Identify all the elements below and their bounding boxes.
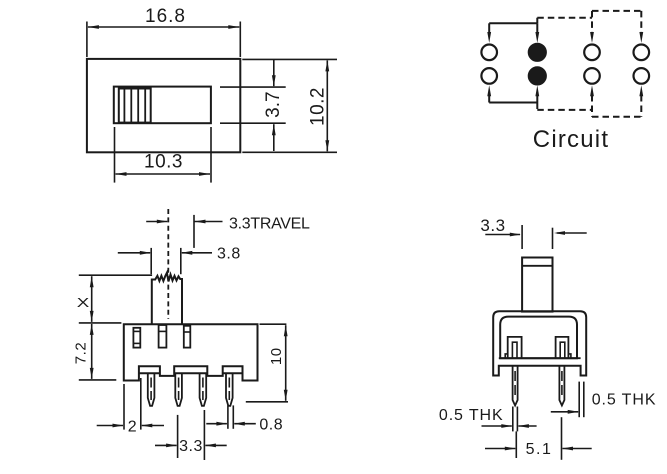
svg-text:3.3TRAVEL: 3.3TRAVEL [229, 216, 310, 233]
circuit: contact circles pin column 3 [584, 45, 600, 61]
svg-text:0.8: 0.8 [259, 417, 283, 434]
front view: dashed centerline [167, 209, 169, 319]
front view: pin 3 [200, 373, 207, 406]
dimension 16.8 (top view width) [86, 22, 88, 58]
front view: switch body outline with stepped base [124, 324, 258, 380]
dimension 0.5 THK right (wall thickness) [578, 382, 580, 418]
top view: slider knob with grip ridges [119, 89, 151, 123]
front view: contact window 1 [133, 328, 140, 348]
circuit: dashed top bracket position 2 [537, 17, 592, 19]
dimension 3.3 (side knob width) [485, 234, 520, 236]
circuit: dashed top bracket position 3 [592, 10, 641, 12]
front view: actuator knob with break-line top [152, 273, 182, 324]
side view: base plate line [499, 357, 581, 359]
svg-text:16.8: 16.8 [145, 6, 186, 27]
front view: pin 2 [175, 373, 182, 406]
front view: pin seat lines [139, 372, 160, 374]
dimension 2 (edge to pin) [123, 384, 125, 430]
circuit: contact circles pin column 2 common filled [529, 44, 546, 61]
side view: right contact [556, 337, 569, 358]
side view: left contact [508, 337, 522, 358]
svg-text:3.3: 3.3 [480, 216, 505, 235]
dimension 10.2 (top view height) [242, 58, 337, 60]
front view: pin 1 [148, 373, 155, 406]
circuit: contact circles pin column 4 [634, 45, 650, 61]
svg-text:10.3: 10.3 [144, 152, 183, 173]
dimension 3.7 (slot height) [220, 86, 286, 88]
dimension 5.1 (pin spacing) [515, 431, 517, 458]
front view: contact window 3 [184, 326, 191, 348]
front view: contact window 2 [159, 325, 167, 348]
dimension 10 (body to pin tip) [260, 323, 287, 325]
top view: slide slot rectangle [114, 87, 211, 124]
dimension 3.8 (knob width) [118, 252, 150, 254]
circuit: contact circles pin column 1 [481, 45, 497, 61]
svg-text:X: X [77, 295, 90, 310]
svg-text:10: 10 [268, 347, 285, 365]
side view: housing outer outline with feet [493, 311, 586, 375]
svg-text:10.2: 10.2 [308, 87, 329, 126]
circuit: solid top bracket position 1 [489, 22, 537, 24]
svg-text:2: 2 [128, 419, 137, 436]
circuit: solid bottom bracket position 1 [489, 102, 537, 104]
svg-text:5.1: 5.1 [526, 441, 553, 458]
dimension 3.3 TRAVEL [146, 221, 167, 223]
side view: actuator knob [522, 258, 552, 312]
top view: switch body outer rectangle [87, 59, 240, 152]
circuit: dashed bottom bracket position 2 [537, 109, 592, 111]
dimension 7.2 (body height) [79, 379, 117, 381]
dimension 0.8 (pin width) [227, 405, 229, 428]
svg-text:3.7: 3.7 [263, 91, 284, 117]
svg-text:3.8: 3.8 [217, 246, 241, 263]
side view: left pin [513, 366, 518, 406]
svg-text:7.2: 7.2 [73, 342, 90, 364]
front view: pin 4 [226, 373, 233, 406]
dimension 3.3 (pin pitch) [177, 415, 179, 458]
svg-text:0.5 THK: 0.5 THK [439, 407, 504, 424]
circuit: dashed bottom bracket position 3 [592, 116, 641, 118]
side view: right pin [559, 366, 564, 406]
dimension X (knob height) [79, 274, 152, 276]
dimension 0.5 THK left (pin thickness) [512, 407, 514, 432]
dimension 10.3 (slot width) [114, 127, 116, 183]
svg-text:Circuit: Circuit [533, 126, 609, 153]
side view: housing inner cavity outline [500, 317, 577, 359]
svg-text:0.5 THK: 0.5 THK [592, 392, 657, 409]
svg-text:3.3: 3.3 [179, 438, 203, 455]
